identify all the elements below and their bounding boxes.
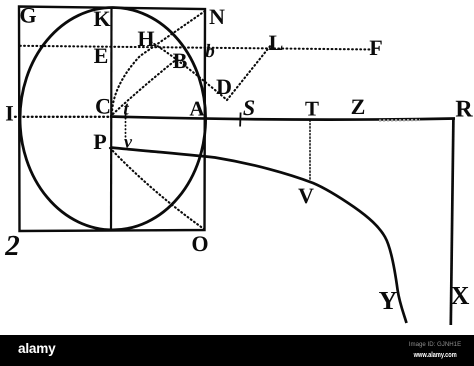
dotted vertical t to v — [125, 111, 127, 140]
label Q — [5, 236, 19, 255]
label Y — [379, 292, 397, 309]
label E — [94, 49, 107, 63]
dotted line D vertex to L — [227, 45, 271, 100]
label I — [6, 106, 13, 120]
label D — [216, 80, 230, 94]
tick at S — [239, 113, 242, 127]
label b — [206, 44, 215, 57]
alamy footer bar — [0, 335, 474, 366]
dotted curve C to H to N — [112, 11, 205, 114]
label G — [21, 8, 36, 23]
vertical line R to X — [451, 119, 454, 325]
alamy logo — [18, 341, 56, 356]
label C — [96, 99, 109, 114]
circle inscribed in square — [20, 8, 206, 230]
label X — [451, 287, 469, 304]
dotted segment I to C — [15, 116, 109, 118]
label A — [190, 102, 205, 116]
label F — [370, 41, 382, 55]
dotted horizontal line E b L F — [20, 46, 374, 50]
axis solid C A S T Z R — [110, 117, 455, 120]
label O — [193, 236, 208, 251]
vertical diameter K C P — [110, 8, 113, 231]
dotted vertical T to V — [309, 120, 311, 183]
label H — [138, 32, 154, 46]
dotted line C to B — [113, 59, 177, 114]
curve v V Y — [111, 148, 407, 324]
label K — [94, 12, 111, 26]
image id text — [409, 341, 461, 348]
faded segment of curve — [150, 152, 215, 158]
dotted line H to D vertex — [151, 42, 227, 100]
axis faded segment near Z — [379, 119, 420, 122]
label L — [269, 36, 282, 50]
label V — [298, 189, 313, 204]
rectangle G N O Q — [19, 7, 205, 232]
label B — [173, 54, 187, 68]
label P — [94, 135, 106, 149]
label t — [124, 104, 129, 115]
alamy url — [414, 350, 457, 359]
label T — [305, 102, 318, 116]
label v — [124, 139, 132, 147]
label N — [209, 10, 224, 24]
label S — [243, 100, 254, 115]
dotted line P to O — [110, 148, 204, 229]
label Z — [352, 100, 365, 114]
label R — [456, 101, 473, 117]
